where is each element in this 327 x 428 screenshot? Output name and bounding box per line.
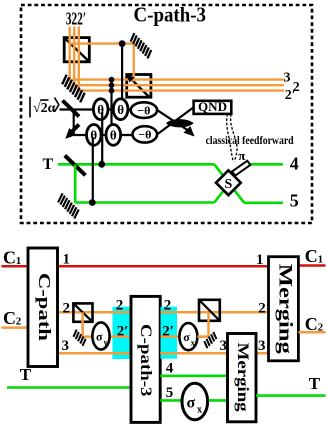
label C1 left: [3, 247, 21, 267]
svg-text:3: 3: [258, 338, 266, 354]
svg-text:2′: 2′: [285, 88, 296, 103]
wire row1 horizontal: [60, 108, 158, 110]
label C2 left: [3, 308, 22, 328]
wire green vertical from b2: [74, 164, 77, 202]
svg-text:C-path-3: C-path-3: [137, 324, 154, 397]
svg-text:Merging: Merging: [275, 264, 295, 355]
wire black from phase U1 down to green line 1: [101, 112, 103, 164]
wire orange C2 right: [298, 331, 325, 334]
junction dot B2: [109, 82, 115, 88]
dashed enclosure box of C-path-3 block: [21, 5, 312, 223]
beam splitter cube BS-A (top left): [64, 38, 89, 62]
sigma-x gate right: [179, 323, 197, 350]
svg-text:2: 2: [318, 322, 324, 334]
mirror M1 (top right, hatched): [128, 33, 153, 58]
svg-text:x: x: [197, 405, 202, 416]
mirror M3 (row2, with arrow): [65, 125, 79, 139]
wire orange down from BS1: [83, 312, 132, 336]
arrow on BS-B diagonal: [127, 75, 135, 83]
wire green crossing diagonal 2: [214, 164, 244, 202]
svg-text:−θ: −θ: [137, 103, 150, 117]
pi phase plate (rotated rectangle): [232, 161, 250, 176]
svg-text:5: 5: [166, 385, 174, 401]
beam splitter cube BS1 (bottom): [73, 303, 92, 321]
wire orange line 2 over left cyan: [113, 311, 132, 314]
ket |sqrt(2)alpha> input label: [30, 97, 59, 118]
phase shifter theta U1 (row1): [93, 99, 108, 120]
mirror m1 (bottom, hatched small): [72, 330, 88, 346]
sigma-x gate big on line 5: [182, 383, 208, 420]
svg-text:3: 3: [62, 338, 70, 354]
cyan box 2' left: [113, 307, 132, 359]
svg-text:σ: σ: [96, 330, 103, 344]
wire black from phase U4 down to green line 2: [92, 137, 94, 203]
mirror m2 (bottom, hatched small): [202, 332, 218, 348]
wire black from node A down to phase row 1: [121, 44, 123, 108]
svg-text:5: 5: [290, 190, 299, 210]
svg-text:1: 1: [16, 255, 21, 267]
svg-text:QND: QND: [198, 100, 227, 114]
svg-text:C-path-3: C-path-3: [134, 2, 207, 26]
svg-text:2: 2: [116, 297, 124, 313]
dashed classical feedforward curve 1: [227, 114, 234, 162]
wire green T line 1: [58, 163, 214, 166]
svg-text:4: 4: [290, 153, 299, 173]
beam splitter cube BS-B (with arrow): [127, 75, 151, 98]
wire orange input 2 (vertical): [74, 27, 284, 86]
svg-text:1: 1: [63, 251, 71, 267]
beam splitter b1 on row1: [63, 101, 80, 117]
svg-text:σ: σ: [187, 395, 196, 412]
phase shifter theta U4 (row2): [87, 124, 102, 145]
beam splitter b2 on T line: [65, 156, 86, 176]
wire orange line 3: [57, 352, 268, 355]
svg-text:S: S: [225, 177, 233, 192]
phase shifter theta U2 (row1): [113, 99, 128, 120]
wire green 4: [160, 374, 227, 377]
wire orange C2 left: [2, 326, 29, 329]
wire orange down from BS2: [197, 312, 208, 336]
svg-text:3: 3: [284, 71, 291, 86]
dashed classical feedforward curve 2: [231, 114, 237, 162]
wire green T line 2: [75, 201, 214, 204]
wire green output 4: [244, 163, 283, 166]
wire orange from BS-A to mirror M1 and down into BS-B: [70, 44, 134, 82]
svg-text:C: C: [305, 314, 318, 334]
wire orange input 3 (vertical): [70, 27, 284, 80]
wire green crossing diagonal 1: [214, 164, 244, 203]
wire orange 2' re-draw over cyan: [113, 335, 132, 338]
beam splitter cube BS2 (bottom): [199, 300, 220, 321]
svg-text:θ: θ: [110, 128, 117, 143]
svg-text:σ: σ: [183, 330, 190, 344]
swap gate S diamond: [216, 170, 241, 195]
mirror M4 (bottom left, hatched): [56, 193, 81, 218]
svg-text:π: π: [238, 148, 245, 163]
wire row2 horizontal: [74, 134, 157, 136]
wire green T right: [256, 394, 326, 397]
svg-text:−θ: −θ: [138, 128, 151, 142]
junction dot on green line 1: [98, 161, 105, 168]
svg-text:√2α: √2α: [33, 101, 56, 116]
svg-text:classical feedforward: classical feedforward: [206, 135, 295, 147]
node A junction dot on orange wire: [119, 40, 126, 47]
phase shifter theta U5 (row2): [106, 124, 121, 145]
svg-text:Merging: Merging: [234, 343, 251, 412]
wire orange line 2: [57, 311, 268, 314]
svg-text:1: 1: [256, 252, 264, 268]
svg-text:3: 3: [220, 338, 228, 354]
svg-text:C: C: [305, 246, 318, 266]
svg-text:x: x: [191, 339, 195, 348]
junction dot B1: [109, 77, 115, 83]
QND box: [194, 100, 232, 114]
svg-text:θ: θ: [117, 102, 124, 117]
label C1 right: [305, 246, 323, 266]
svg-text:322′: 322′: [66, 8, 86, 28]
wire orange input 2' (vertical): [79, 27, 284, 91]
svg-text:C: C: [3, 308, 16, 328]
phase shifter -theta U6 (row2): [133, 126, 158, 142]
svg-text:4: 4: [166, 360, 174, 376]
wire orange line 3 over left cyan: [113, 352, 132, 355]
C-path-3 box: [131, 296, 160, 422]
wire red line 1 (middle): [57, 265, 268, 268]
label C2 right: [305, 314, 324, 334]
cyan box 2' right: [161, 307, 178, 359]
Merging box right: [269, 257, 299, 361]
wire green 5: [160, 399, 227, 402]
svg-text:θ: θ: [90, 128, 97, 143]
sigma-y gate left: [92, 322, 109, 349]
svg-text:C-path: C-path: [35, 273, 54, 342]
Merging box lower: [228, 334, 257, 422]
svg-text:2: 2: [258, 301, 266, 317]
C-path box: [28, 248, 58, 367]
svg-text:1: 1: [318, 254, 324, 266]
wire orange 2' right side: [161, 335, 209, 338]
svg-text:2: 2: [63, 300, 71, 316]
wire orange line 3 over right cyan: [160, 352, 227, 355]
junction dot B3: [109, 88, 115, 94]
wire orange line 2 over right cyan: [161, 311, 200, 314]
svg-text:C: C: [3, 247, 16, 267]
wire green T left: [7, 386, 132, 389]
svg-text:y: y: [104, 338, 108, 347]
mirror M2 (left, hatched): [60, 75, 88, 103]
svg-text:2: 2: [16, 315, 22, 327]
wire black tap B with junction dots on the three orange lines: [110, 80, 112, 135]
svg-text:T: T: [43, 156, 54, 173]
coupler bowtie at crossing: [166, 119, 194, 127]
svg-text:2: 2: [164, 297, 172, 313]
wire red C1 right: [298, 264, 325, 267]
svg-text:T: T: [309, 374, 321, 393]
junction dot on green line 2: [89, 199, 96, 206]
wire crossing X to QND with arrow: [157, 107, 194, 136]
phase shifter -theta U3 (row1): [131, 102, 157, 118]
wire red C1 left: [2, 265, 29, 268]
wire green output 5: [244, 202, 283, 205]
wire down from b1 to mirror M3: [73, 110, 75, 134]
